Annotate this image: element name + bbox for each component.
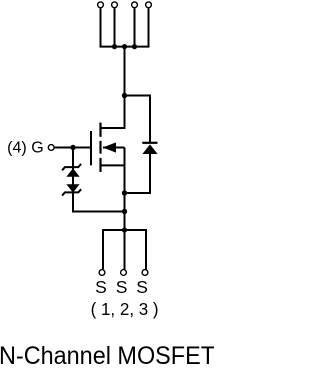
junction dot node D (drain / diode split) bbox=[122, 93, 127, 98]
svg-text:( 1, 2, 3 ): ( 1, 2, 3 ) bbox=[91, 299, 159, 319]
svg-text:S: S bbox=[95, 277, 107, 297]
junction dot zener return join bbox=[122, 209, 127, 214]
transistor Q1 gate plate bbox=[90, 131, 92, 165]
junction dot node S (diode anode join) bbox=[122, 190, 127, 195]
wire mosfet source stub bbox=[101, 164, 125, 166]
junction dot drain bus pin3 bbox=[132, 44, 137, 49]
wire node D to body diode cathode bbox=[125, 96, 151, 143]
svg-text:N-Channel MOSFET: N-Channel MOSFET bbox=[0, 342, 214, 370]
wire source bus with outer pin stems bbox=[103, 230, 146, 269]
zener Z2 cathode bar (toward source) bbox=[62, 189, 81, 195]
junction dot drain bus center bbox=[122, 44, 127, 49]
wire drain bus to node D bbox=[124, 47, 126, 96]
terminal circle source S2 bbox=[121, 270, 127, 276]
wire mosfet source/body vertical down to S2 terminal bbox=[124, 148, 126, 270]
wire mosfet body arrow lead bbox=[103, 147, 125, 149]
diode D1 body diode triangle bbox=[142, 144, 157, 154]
junction dot source bus center bbox=[122, 227, 127, 232]
transistor Q1 channel dash bottom bbox=[99, 158, 101, 172]
transistor Q1 channel dash middle bbox=[99, 141, 101, 154]
junction dot gate / zener tap bbox=[70, 145, 75, 150]
terminal circle source S1 bbox=[99, 270, 105, 276]
terminal circle source S3 bbox=[142, 270, 148, 276]
zener Z1 cathode bar (toward gate) bbox=[62, 164, 81, 170]
wire drain pin 3 stem bbox=[134, 8, 136, 46]
junction dot drain bus pin2 bbox=[112, 44, 117, 49]
zener Z1 triangle (pointing up) bbox=[66, 168, 79, 176]
terminal circle drain pin c bbox=[132, 2, 138, 8]
wire drain bus with outer pin stems bbox=[101, 8, 149, 46]
wire zener bottom to source return bbox=[73, 192, 125, 211]
terminal circle gate G bbox=[48, 145, 54, 151]
transistor Q1 body arrowhead bbox=[103, 142, 116, 152]
wire gate lead bbox=[54, 147, 91, 149]
svg-text:S: S bbox=[116, 277, 128, 297]
svg-text:(4) G: (4) G bbox=[7, 140, 44, 157]
wire gate node down through zeners bbox=[72, 148, 74, 193]
wire node D to mosfet drain stub bbox=[101, 96, 125, 129]
zener Z2 triangle (pointing down) bbox=[66, 184, 79, 192]
svg-text:S: S bbox=[136, 277, 148, 297]
terminal circle drain pin b bbox=[112, 2, 118, 8]
wire drain pin 2 stem bbox=[114, 8, 116, 46]
terminal circle drain pin d bbox=[146, 2, 152, 8]
terminal circle drain pin a bbox=[98, 2, 104, 8]
diode D1 body diode cathode bar bbox=[142, 142, 157, 144]
wire body diode anode to node S bbox=[125, 154, 151, 194]
transistor Q1 channel dash top bbox=[99, 123, 101, 137]
